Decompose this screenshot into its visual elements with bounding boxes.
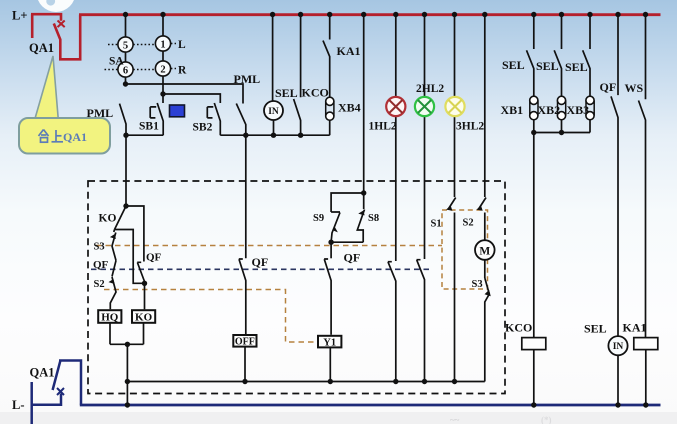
wire bus to selector contact 5 (125, 15, 127, 37)
wire Y1 coil bottom (329, 347, 331, 381)
relay cabinet dashed box (88, 181, 505, 394)
svg-text:S3: S3 (472, 279, 483, 290)
svg-text:KCO: KCO (505, 321, 532, 335)
svg-text:OFF: OFF (235, 337, 255, 348)
label SB1 (139, 121, 159, 133)
svg-text:QF: QF (600, 80, 617, 94)
coil HQ (98, 310, 121, 323)
label WS (625, 81, 644, 95)
socket XB1 (530, 96, 538, 120)
travel switch S2 (motor) (477, 198, 486, 241)
junction node A (123, 81, 128, 86)
wire motor column (484, 15, 486, 198)
svg-text:IN: IN (268, 107, 279, 117)
label S3 chain (94, 242, 105, 253)
svg-text:IN: IN (613, 342, 624, 352)
junctions on mid rail (123, 133, 303, 138)
label QF chain (93, 259, 109, 271)
label L (178, 39, 186, 51)
svg-text:XB1: XB1 (501, 103, 524, 117)
open-contact X mark of QA1 (58, 21, 65, 28)
svg-text:PML: PML (87, 106, 114, 120)
svg-text:QF: QF (252, 255, 269, 269)
open-contact X mark of QA1 bottom (57, 388, 64, 395)
label SEL 2 (536, 59, 559, 73)
label PML right (234, 72, 261, 86)
lamp column 3HL2 wire (454, 15, 456, 198)
lamp button blue (170, 105, 185, 117)
travel switch S3 (motor) (485, 278, 491, 382)
selector contact 5 (108, 37, 155, 52)
label XB1 (501, 103, 524, 117)
lamp column 2HL2 wire (424, 15, 426, 260)
travel switch S2 chain (109, 277, 116, 309)
junction KO coil top (142, 281, 147, 286)
wire contact 5 to contact 6 (125, 52, 127, 62)
motor M (475, 240, 495, 260)
svg-text:SB2: SB2 (193, 122, 213, 134)
label SEL right (584, 322, 607, 336)
svg-text:KA1: KA1 (623, 321, 647, 335)
label KA1 top (337, 44, 361, 58)
contact WS (639, 15, 646, 338)
label 3HL2 (456, 121, 484, 133)
svg-text:QA1: QA1 (29, 41, 54, 55)
socket XB2 (557, 96, 565, 120)
svg-text:SEL: SEL (584, 322, 607, 336)
label S2 motor (463, 218, 474, 229)
wire KCO coil bottom right (533, 350, 535, 405)
junctions on L+ bus (123, 12, 648, 17)
label QF OFF-column (252, 255, 269, 269)
label KA1 right (623, 321, 647, 335)
label QF right (600, 80, 617, 94)
label KCO mid (302, 86, 329, 100)
travel switch S8 (357, 193, 364, 242)
contact SEL 2 (554, 15, 561, 98)
svg-text:QA1: QA1 (30, 366, 55, 380)
breaker QA1 (top) blade (54, 15, 80, 60)
svg-text:S3: S3 (94, 242, 105, 253)
label L- (12, 398, 25, 412)
svg-text:(*): (*) (541, 415, 552, 424)
svg-text:5: 5 (123, 41, 128, 52)
label 2HL2 (416, 83, 444, 95)
label SEL mid (275, 86, 298, 100)
lamp 2HL2 (415, 97, 434, 116)
svg-text:QF: QF (93, 259, 109, 271)
linkage dashed line QF (blue) (91, 268, 431, 270)
svg-text:SEL: SEL (565, 60, 588, 74)
junction S9/S8 top (361, 190, 366, 195)
wire junction rail SB2/IN/SEL/XB4 (220, 134, 329, 136)
svg-text:QF: QF (146, 252, 162, 264)
label S1 (431, 219, 442, 230)
svg-text:KO: KO (135, 312, 153, 324)
svg-text:PML: PML (234, 72, 261, 86)
svg-text:S2: S2 (94, 279, 105, 290)
label R (178, 65, 187, 77)
junctions on box bottom rail (125, 379, 457, 384)
svg-text:KCO: KCO (302, 86, 329, 100)
contact KA1 top (323, 15, 330, 99)
junction S9/S8 bottom (328, 240, 333, 245)
coil KA1 (634, 338, 658, 350)
svg-text:KO: KO (99, 213, 117, 225)
label L+ (12, 9, 27, 23)
label S9 (313, 213, 324, 224)
wire contact 1 to contact 2 (162, 51, 164, 61)
svg-text:2: 2 (160, 65, 165, 76)
wire S9/S8 bottom join (331, 241, 363, 243)
wire OFF coil bottom (244, 347, 246, 382)
svg-text:XB2: XB2 (538, 103, 561, 117)
svg-text:1: 1 (160, 40, 165, 51)
breaker QA1 (bottom) blade (53, 361, 81, 405)
contact QF chain (112, 261, 116, 277)
wire contact 6 to node A (126, 77, 244, 103)
linkage dashed line S3 (brown) (96, 245, 442, 247)
pushbutton SB2 (207, 103, 220, 135)
contact KCO mid (294, 15, 301, 136)
wire L+ feed (31, 14, 61, 21)
label 1HL2 (369, 121, 397, 133)
contact QF (Y1 column) (324, 259, 331, 335)
svg-text:S1: S1 (431, 219, 442, 230)
label XB2 (538, 103, 561, 117)
wire XB1/XB2/XB3 join (534, 119, 590, 338)
junctions XB join (531, 130, 564, 135)
wire PML column into box (125, 135, 127, 206)
travel switch S3 chain (111, 230, 116, 261)
svg-text:SEL: SEL (275, 86, 298, 100)
svg-text:S9: S9 (313, 213, 324, 224)
label SEL 3 (565, 60, 588, 74)
svg-text:HQ: HQ (101, 312, 119, 324)
contact SEL 3 (583, 15, 590, 98)
mechanism dashed sub-box S1/S2/M/S3 (442, 210, 488, 289)
selector contact 2 (155, 61, 176, 76)
wire branch to QF/KO coil (126, 206, 144, 262)
label KCO right (505, 321, 532, 335)
svg-text:M: M (479, 246, 490, 258)
node L+ stub wire (31, 14, 34, 38)
coil Y1 (318, 336, 341, 349)
callout balloon 合上QA1 (19, 56, 110, 154)
contact QF (1HL2 column) (388, 262, 396, 382)
wire bus to selector contact 1 (162, 15, 164, 36)
svg-text:R: R (178, 65, 187, 77)
socket XB3 (586, 96, 594, 120)
wire OFF column from rail (245, 135, 247, 258)
wire IN to rail (273, 120, 275, 136)
contact KO (115, 206, 127, 230)
wire motor to S3 (484, 260, 486, 278)
coil OFF (233, 335, 256, 348)
label S2 chain (94, 279, 105, 290)
wire KO coil feed (144, 283, 145, 309)
svg-text:SB1: SB1 (139, 121, 159, 133)
wire KA1 coil bottom (645, 350, 647, 405)
svg-text:QA1: QA1 (63, 130, 87, 144)
bus L- (80, 404, 661, 407)
wire box bottom rail (127, 381, 484, 383)
svg-text:SA: SA (109, 56, 124, 68)
label XB3 (567, 103, 590, 117)
svg-text:XB4: XB4 (338, 101, 361, 115)
svg-text:Y1: Y1 (323, 337, 336, 348)
label QF Y1-column (344, 251, 361, 265)
wire L- feed (31, 394, 62, 405)
label KO (99, 213, 117, 225)
socket XB4 (326, 97, 334, 120)
junction coils bottom (125, 342, 130, 347)
label S8 (368, 213, 379, 224)
label SA (109, 56, 124, 68)
indicator IN mid (264, 101, 283, 120)
lamp column 1HL2 wire (395, 15, 397, 262)
travel switch S1 (447, 198, 456, 382)
switch PML left (120, 104, 127, 136)
wire bus to indicator IN (272, 15, 274, 102)
label S3 motor (472, 279, 483, 290)
junction node B (160, 91, 165, 96)
label XB4 (338, 101, 361, 115)
bus L+ (79, 13, 661, 16)
indicator IN right (608, 336, 627, 355)
wire bottom of PML/SB1 (126, 134, 163, 136)
contact QF (OFF column) (239, 259, 246, 335)
label PML left (87, 106, 114, 120)
label SB2 (193, 122, 213, 134)
linkage dashed line S2 to Y1 (brown) (104, 290, 317, 343)
wire coils join to L- (110, 344, 144, 405)
wire KO bypass to KO coil branch (115, 230, 145, 284)
svg-text:S8: S8 (368, 213, 379, 224)
wire Y1 column (330, 242, 332, 258)
svg-text:L+: L+ (12, 9, 27, 23)
svg-text:QF: QF (344, 251, 361, 265)
wire HQ coil bottom (109, 322, 111, 344)
wire XB4 to rail (329, 119, 331, 135)
wire S9/S8 top branch (331, 193, 364, 212)
svg-text:S2: S2 (463, 218, 474, 229)
label QA1 bottom (30, 366, 55, 380)
switch PML right (236, 104, 246, 136)
svg-text:XB3: XB3 (567, 103, 590, 117)
selector contact 1 (155, 36, 176, 51)
label SEL 1 (502, 58, 525, 72)
travel switch S9 (331, 212, 340, 242)
svg-text:WS: WS (625, 81, 644, 95)
svg-text:SEL: SEL (536, 59, 559, 73)
node L- stub wire (30, 382, 33, 424)
coil KCO (522, 338, 546, 350)
contact QF right (611, 15, 618, 337)
contact QF (2HL2 column) (417, 260, 425, 382)
label QF KO-branch (146, 252, 162, 264)
coil KO (132, 310, 155, 323)
lamp 3HL2 (445, 97, 464, 116)
svg-text:1HL2: 1HL2 (369, 121, 397, 133)
contact SEL 1 (527, 15, 534, 98)
svg-text:L: L (178, 39, 186, 51)
svg-text:KA1: KA1 (337, 44, 361, 58)
junctions on L- bus (125, 402, 649, 407)
svg-text:L-: L- (12, 398, 25, 412)
selector contact 6 (105, 62, 156, 77)
wire KO coil bottom (143, 322, 145, 344)
contact QF (KO coil branch) (137, 262, 144, 283)
wire bus to node S9/S8 (363, 15, 365, 194)
lamp 1HL2 (386, 97, 405, 116)
svg-text:3HL2: 3HL2 (456, 121, 484, 133)
svg-text:~~: ~~ (450, 415, 460, 424)
svg-text:2HL2: 2HL2 (416, 83, 444, 95)
label QA1 top (29, 41, 54, 55)
wire IN right to bus (617, 355, 619, 405)
svg-text:SEL: SEL (502, 58, 525, 72)
pushbutton SB1 (150, 103, 163, 135)
wire contact 2 to node B (163, 76, 220, 103)
watermark logo (37, 0, 76, 12)
junction KO top (123, 203, 128, 208)
